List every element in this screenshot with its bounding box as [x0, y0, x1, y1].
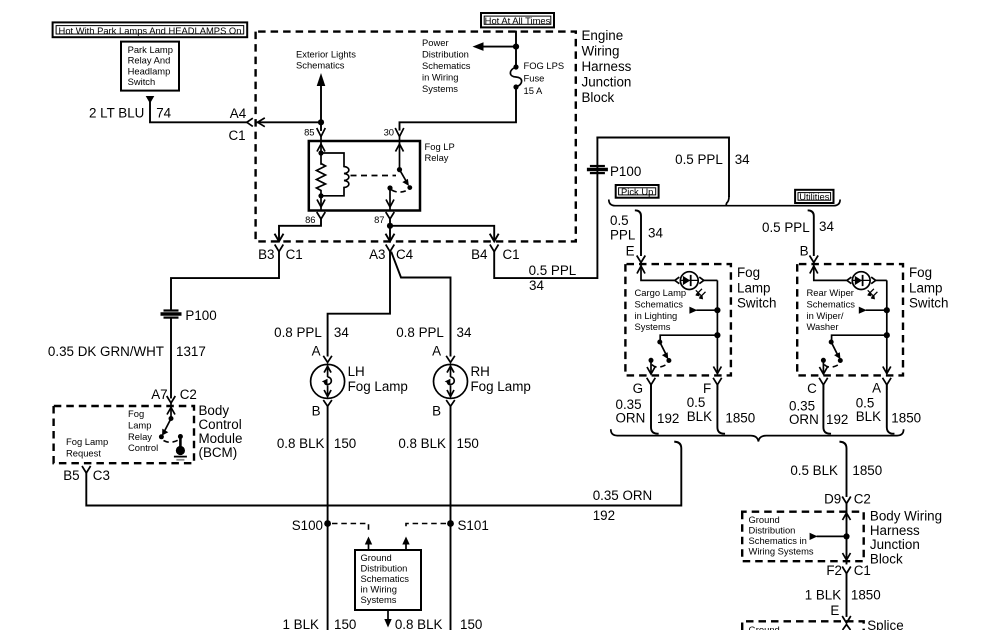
wire: brace to BCM (0.35 ORN 192) — [86, 442, 681, 506]
switch right leg down to pin A — [886, 280, 888, 374]
svg-text:A7: A7 — [151, 387, 167, 402]
node: switch common junction — [714, 332, 720, 338]
svg-text:192: 192 — [593, 508, 615, 523]
svg-text:1317: 1317 — [176, 344, 206, 359]
label box: Hot At All Times — [481, 13, 554, 27]
svg-text:P100: P100 — [610, 164, 641, 179]
svg-text:LH: LH — [348, 364, 365, 379]
wire: pin C drop with hook — [823, 385, 830, 434]
arrow to Exterior Lights Schematics — [320, 85, 322, 123]
resistor — [317, 164, 326, 211]
svg-text:ORN: ORN — [789, 412, 819, 427]
svg-text:Distribution: Distribution — [422, 49, 469, 60]
svg-text:F2: F2 — [826, 563, 842, 578]
svg-text:Relay And: Relay And — [128, 55, 171, 66]
svg-text:Body Wiring: Body Wiring — [870, 508, 942, 523]
svg-text:Systems: Systems — [422, 83, 458, 94]
switch arm and contacts — [660, 335, 717, 341]
svg-text:30: 30 — [384, 126, 394, 137]
splice S101 — [447, 520, 454, 527]
svg-text:(BCM): (BCM) — [199, 445, 238, 460]
svg-text:C1: C1 — [228, 128, 245, 143]
svg-text:Fog LP: Fog LP — [425, 141, 455, 152]
svg-text:Schematics: Schematics — [807, 299, 856, 310]
svg-text:192: 192 — [657, 411, 679, 426]
switch arm and contacts — [832, 335, 887, 341]
svg-text:A: A — [432, 344, 441, 359]
svg-text:Schematics: Schematics — [296, 60, 345, 71]
svg-text:Ground: Ground — [361, 552, 392, 563]
svg-text:Fog: Fog — [737, 265, 760, 280]
svg-text:Fog: Fog — [909, 265, 932, 280]
big dashed box: Engine Wiring Harness Junction Block — [256, 32, 576, 242]
svg-text:A4: A4 — [230, 106, 247, 121]
connector B3 / C1 — [275, 245, 284, 252]
svg-text:150: 150 — [460, 617, 482, 630]
svg-text:0.5 BLK: 0.5 BLK — [790, 463, 838, 478]
wire through body junction block — [846, 504, 848, 564]
svg-text:150: 150 — [457, 436, 479, 451]
svg-text:C2: C2 — [180, 387, 197, 402]
svg-text:0.8 BLK: 0.8 BLK — [277, 436, 325, 451]
svg-text:D9: D9 — [824, 491, 841, 506]
svg-text:1 BLK: 1 BLK — [805, 588, 842, 603]
svg-text:0.5 PPL: 0.5 PPL — [762, 220, 810, 235]
svg-text:Ground: Ground — [749, 624, 780, 630]
pin 86 — [317, 212, 326, 219]
pin 30 — [395, 128, 404, 137]
svg-text:0.5: 0.5 — [687, 395, 706, 410]
box: Park Lamp Relay And Headlamp Switch — [121, 42, 179, 91]
svg-text:B: B — [312, 403, 321, 418]
wire: connector to junction at relay pin 85 — [258, 121, 321, 123]
svg-text:Switch: Switch — [909, 296, 948, 311]
svg-text:Utilities: Utilities — [799, 191, 830, 202]
wire: pin 86 to B3 — [279, 219, 321, 240]
dashed box: Fog Lamp Switch (Utilities) — [797, 264, 903, 375]
grommet P100 (left) — [161, 308, 217, 323]
svg-text:34: 34 — [457, 325, 472, 340]
svg-text:86: 86 — [305, 214, 315, 225]
svg-text:Wiring Systems: Wiring Systems — [749, 546, 814, 557]
svg-text:S100: S100 — [292, 518, 323, 533]
svg-text:S101: S101 — [458, 518, 489, 533]
svg-text:Hot At All Times: Hot At All Times — [485, 15, 551, 26]
svg-text:Headlamp: Headlamp — [128, 65, 171, 76]
wire: A3/C4 to LH fog lamp — [328, 252, 390, 356]
svg-text:1 BLK: 1 BLK — [283, 617, 320, 630]
svg-text:Junction: Junction — [870, 537, 920, 552]
wire: B3 to P100 grommet to BCM A7 — [171, 252, 279, 309]
wire: brace to body junction block (0.5 BLK 1850) — [840, 442, 846, 496]
wire: park lamp switch to connector A4 — [150, 103, 246, 122]
svg-text:0.8 BLK: 0.8 BLK — [395, 617, 443, 630]
pin G — [647, 378, 656, 390]
svg-text:2 LT BLU: 2 LT BLU — [89, 105, 144, 120]
svg-text:Schematics in: Schematics in — [749, 535, 807, 546]
wire: RH lamp to S101 — [450, 406, 452, 630]
pin E — [637, 256, 646, 263]
svg-text:150: 150 — [334, 617, 356, 630]
arrow to Power Distribution Schematics — [482, 46, 516, 48]
wire: A3/C4 to RH fog lamp — [392, 253, 451, 356]
svg-text:0.5: 0.5 — [610, 213, 629, 228]
wire: pin G drop with hook — [651, 385, 658, 434]
gathering brace under switches — [611, 429, 904, 441]
svg-text:Lamp: Lamp — [909, 280, 943, 295]
svg-text:0.35 DK GRN/WHT: 0.35 DK GRN/WHT — [48, 344, 164, 359]
svg-text:C1: C1 — [503, 247, 520, 262]
svg-text:Exterior Lights: Exterior Lights — [296, 49, 356, 60]
svg-text:Pick Up: Pick Up — [621, 186, 653, 197]
svg-text:Fog: Fog — [128, 408, 144, 419]
wire: B4 to P100 grommet (right) — [494, 138, 597, 279]
wire: P100 to A7 — [170, 319, 172, 398]
wire: hot at all times feed down to fuse — [515, 32, 517, 67]
arrow to ground distribution (left) — [365, 537, 372, 545]
svg-text:150: 150 — [334, 436, 356, 451]
pin 85 — [317, 128, 326, 137]
pin B — [810, 256, 819, 263]
svg-text:Park Lamp: Park Lamp — [128, 44, 173, 55]
fog lamp switch internals (right): entry wire with up arrow — [814, 263, 847, 281]
svg-text:Splice: Splice — [867, 618, 903, 630]
inline connector A4 / C1 — [247, 118, 253, 126]
svg-text:15 A: 15 A — [524, 85, 544, 96]
svg-text:Hot With Park Lamps And HEADLA: Hot With Park Lamps And HEADLAMPS On — [59, 25, 242, 36]
svg-text:Lamp: Lamp — [128, 420, 151, 431]
wire: pin F drop with hook — [717, 385, 724, 434]
svg-text:Systems: Systems — [361, 594, 397, 605]
svg-text:Junction: Junction — [582, 75, 632, 90]
svg-text:85: 85 — [304, 126, 314, 137]
svg-text:Ground: Ground — [749, 514, 780, 525]
dashed box: Fog Lamp Switch (Pick Up) — [625, 264, 731, 375]
svg-text:C4: C4 — [396, 247, 414, 262]
BCM driver to ground — [179, 437, 182, 448]
wire: F2 to splice — [846, 574, 848, 617]
svg-text:Body: Body — [199, 403, 230, 418]
svg-text:Schematics: Schematics — [635, 299, 684, 310]
svg-text:0.8 PPL: 0.8 PPL — [396, 325, 444, 340]
wire: top run to options brace — [597, 138, 729, 197]
svg-text:Wiring: Wiring — [582, 44, 620, 59]
wire: junction down to relay pin 85 — [320, 122, 322, 130]
svg-text:Fog Lamp: Fog Lamp — [348, 379, 408, 394]
svg-text:Relay: Relay — [128, 431, 152, 442]
arrow below ground distribution box — [387, 610, 389, 619]
svg-text:in Wiring: in Wiring — [361, 584, 397, 595]
pin F — [713, 378, 722, 390]
svg-text:Harness: Harness — [582, 59, 632, 74]
svg-text:Cargo Lamp: Cargo Lamp — [635, 287, 687, 298]
svg-text:BLK: BLK — [687, 409, 712, 424]
svg-text:B4: B4 — [471, 247, 488, 262]
branch wire to Utilities fog lamp switch — [809, 210, 814, 255]
svg-text:87: 87 — [374, 214, 384, 225]
svg-text:Schematics: Schematics — [422, 60, 471, 71]
LH fog lamp — [311, 364, 408, 399]
svg-text:B: B — [800, 243, 809, 258]
svg-text:Lamp: Lamp — [737, 280, 771, 295]
svg-text:B5: B5 — [63, 468, 79, 483]
svg-text:Module: Module — [199, 431, 243, 446]
relay switch blade — [400, 170, 408, 184]
fog lamp switch internals (left): entry wire with up arrow — [641, 263, 675, 281]
svg-text:Switch: Switch — [737, 296, 776, 311]
pin A (LH) — [323, 356, 332, 363]
svg-text:1850: 1850 — [891, 410, 921, 425]
label box: Utilities — [795, 190, 833, 203]
svg-text:Control: Control — [199, 417, 242, 432]
svg-text:Fog Lamp: Fog Lamp — [471, 379, 531, 394]
svg-text:Control: Control — [128, 442, 158, 453]
svg-text:Schematics: Schematics — [361, 573, 410, 584]
node: junction above pin 85 — [318, 119, 324, 125]
connector A7 / C2 — [167, 396, 176, 403]
label box: Pick Up — [616, 185, 659, 198]
pin B (LH) — [323, 400, 332, 406]
svg-text:34: 34 — [529, 278, 544, 293]
svg-text:F: F — [703, 381, 711, 396]
RH fog lamp — [434, 364, 531, 399]
indicator lamp with connectors — [847, 277, 852, 284]
svg-text:E: E — [626, 243, 635, 258]
svg-text:Block: Block — [870, 552, 903, 567]
wire: LH lamp to S100 — [327, 406, 329, 630]
svg-text:0.8 PPL: 0.8 PPL — [274, 325, 322, 340]
pin A — [883, 378, 892, 390]
svg-text:E: E — [830, 603, 839, 618]
svg-text:34: 34 — [819, 219, 834, 234]
svg-text:0.35 ORN: 0.35 ORN — [593, 488, 653, 503]
svg-text:A3: A3 — [369, 247, 385, 262]
svg-text:192: 192 — [826, 412, 848, 427]
options brace (splice to Pick Up / Utilities) — [609, 200, 840, 206]
svg-text:B: B — [432, 403, 441, 418]
splice S100 — [324, 520, 331, 527]
svg-text:Block: Block — [582, 90, 615, 105]
arrow from park lamp switch box — [146, 96, 155, 104]
svg-text:34: 34 — [648, 226, 663, 241]
svg-text:C1: C1 — [286, 247, 303, 262]
node: switch common junction — [884, 332, 890, 338]
dashed travel arc — [392, 190, 409, 193]
svg-text:0.5 PPL: 0.5 PPL — [675, 152, 723, 167]
arrow inside splice box — [843, 625, 851, 630]
svg-text:1850: 1850 — [852, 463, 882, 478]
node: junction to power distribution — [513, 44, 519, 50]
pin C — [819, 378, 828, 390]
svg-text:Fuse: Fuse — [524, 72, 545, 83]
svg-text:Engine: Engine — [582, 28, 624, 43]
grommet P100 (right) — [587, 164, 641, 179]
relay box: Fog LP Relay — [309, 141, 420, 211]
switch right leg down to pin F — [716, 280, 718, 374]
svg-text:Request: Request — [66, 448, 101, 459]
svg-text:Systems: Systems — [635, 321, 671, 332]
svg-text:in Wiring: in Wiring — [422, 72, 458, 83]
label box: Hot With Park Lamps And HEADLAMPS On — [53, 22, 248, 37]
indicator lamp with connectors — [675, 277, 680, 284]
svg-text:0.8 BLK: 0.8 BLK — [398, 436, 446, 451]
dashed box: splice ground (partial at bottom) — [742, 621, 864, 630]
svg-text:Washer: Washer — [807, 321, 839, 332]
svg-text:A: A — [872, 381, 881, 396]
pin 87 — [386, 212, 395, 219]
fuse FOG LPS 15 A — [513, 64, 518, 69]
relay switch from pin 30 — [399, 141, 401, 170]
branch wire to Pick Up fog lamp switch — [636, 210, 641, 255]
svg-text:Switch: Switch — [128, 76, 156, 87]
relay mechanical linkage (dashed) — [351, 175, 397, 177]
connector F2 / C1 — [842, 567, 851, 574]
svg-text:BLK: BLK — [856, 409, 881, 424]
relay coil winding — [321, 153, 344, 158]
svg-text:PPL: PPL — [610, 228, 635, 243]
svg-text:Rear Wiper: Rear Wiper — [807, 287, 854, 298]
svg-text:Relay: Relay — [425, 152, 449, 163]
illumination arrows — [696, 289, 706, 298]
BCM internal switch — [170, 403, 172, 419]
relay contact to pin 87 — [387, 185, 392, 190]
svg-text:34: 34 — [334, 325, 349, 340]
wire: BCM B5/C3 handled above; dashed box: Body Wiring Harness Junction Block — [742, 512, 864, 562]
svg-text:1850: 1850 — [851, 588, 881, 603]
svg-text:C: C — [807, 381, 817, 396]
pin B (RH) — [446, 400, 455, 406]
connector B4 / C1 — [490, 245, 499, 252]
dashed stub from S100 — [332, 524, 369, 531]
svg-text:P100: P100 — [185, 308, 216, 323]
svg-text:Harness: Harness — [870, 523, 920, 538]
wire: fuse to relay pin 30 — [400, 87, 517, 130]
svg-text:RH: RH — [471, 364, 490, 379]
dashed stub from S101 — [406, 524, 446, 531]
svg-text:Distribution: Distribution — [749, 525, 796, 536]
svg-text:G: G — [633, 381, 643, 396]
svg-text:C1: C1 — [854, 563, 871, 578]
svg-text:Distribution: Distribution — [361, 563, 408, 574]
svg-text:C2: C2 — [854, 491, 871, 506]
relay coil left leg with resistor — [320, 141, 322, 165]
wire: pin A drop with hook — [887, 385, 894, 434]
svg-text:A: A — [312, 344, 321, 359]
connector A3 / C4 — [386, 245, 395, 252]
box: Ground Distribution Schematics in Wiring Systems — [355, 550, 421, 610]
pin A (RH) — [446, 356, 455, 363]
svg-text:B3: B3 — [258, 247, 274, 262]
dashed box: BCM — [54, 406, 194, 463]
wire: pin 87 junction to A3 and B4 — [389, 219, 391, 240]
svg-text:Fog Lamp: Fog Lamp — [66, 436, 108, 447]
svg-text:in Lighting: in Lighting — [635, 310, 678, 321]
connector B5 / C3 — [82, 466, 91, 473]
svg-text:74: 74 — [156, 105, 171, 120]
svg-text:in Wiper/: in Wiper/ — [807, 310, 844, 321]
svg-text:0.5 PPL: 0.5 PPL — [529, 263, 577, 278]
svg-text:ORN: ORN — [616, 410, 646, 425]
svg-text:1850: 1850 — [725, 410, 755, 425]
illumination arrows — [868, 289, 878, 298]
svg-text:34: 34 — [735, 152, 750, 167]
svg-text:Power: Power — [422, 37, 449, 48]
connector D9 / C2 — [842, 497, 851, 504]
arrow to ground distribution (right) — [402, 537, 409, 545]
pin E (splice) — [842, 616, 851, 623]
svg-text:FOG LPS: FOG LPS — [524, 60, 565, 71]
svg-text:C3: C3 — [93, 468, 110, 483]
